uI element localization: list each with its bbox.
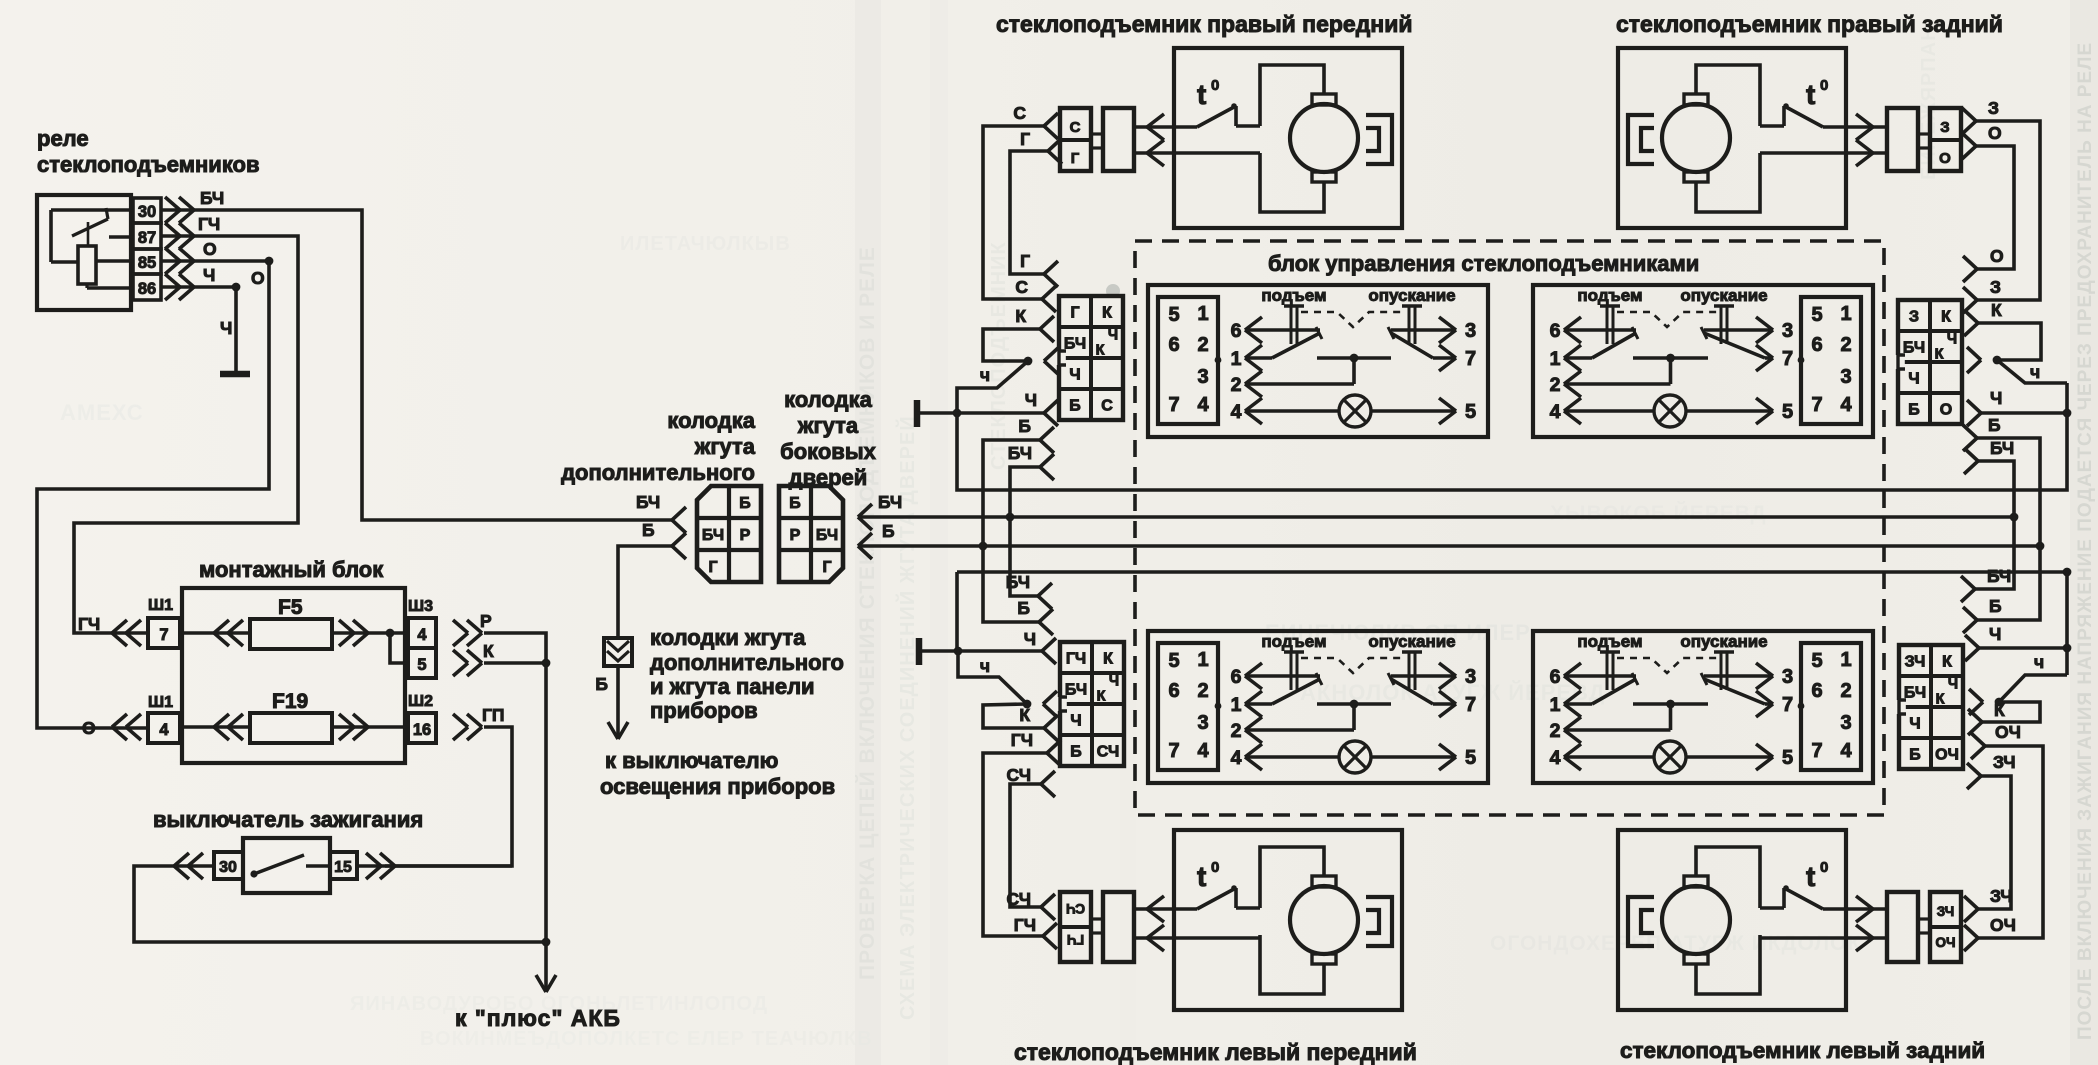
svg-text:колодки жгута: колодки жгута [650, 625, 806, 650]
svg-text:2: 2 [1840, 680, 1851, 702]
chevrons »» after F5 [339, 620, 368, 646]
svg-text:Ч: Ч [1948, 677, 1958, 693]
fork СЧ at M3 [1007, 889, 1056, 920]
wire F19→Ш2 [332, 725, 408, 729]
wire Ч into X1 [957, 390, 1058, 426]
svg-text:СЧ: СЧ [1066, 901, 1085, 916]
svg-text:4: 4 [1550, 747, 1561, 769]
fork БЧ into X1 [1008, 443, 1054, 480]
connector Ш2 label [408, 693, 433, 710]
svg-text:опускание: опускание [1680, 632, 1767, 651]
wire О label (pin85) [203, 239, 217, 259]
svg-text:Б: Б [1070, 744, 1082, 761]
svg-text:3: 3 [1197, 712, 1208, 734]
svg-text:6: 6 [1811, 334, 1822, 356]
svg-text:Г: Г [1020, 129, 1030, 149]
svg-text:ЗЧ: ЗЧ [1905, 654, 1926, 671]
ground G1 [220, 371, 250, 378]
wire О label at Ш1-4 [82, 718, 96, 738]
svg-text:ОЧ: ОЧ [1990, 915, 2016, 935]
wire Ч label (pin86) [203, 265, 215, 285]
control block dashed border [1135, 241, 1884, 815]
fork К into X4 [1968, 700, 2005, 735]
svg-text:жгута: жгута [797, 413, 859, 438]
title «колодка жгута боковых дверей» [780, 387, 876, 490]
колодка жгута дополнительного (block 1) [697, 486, 761, 582]
wire БЧ X4→bus [1975, 517, 2014, 589]
node Ч junction upper [953, 409, 962, 418]
svg-text:5: 5 [417, 656, 426, 674]
svg-text:ГЧ: ГЧ [1014, 915, 1036, 935]
svg-text:ч: ч [2030, 362, 2040, 382]
svg-text:БЧ: БЧ [1064, 336, 1086, 353]
svg-text:Б: Б [642, 520, 655, 540]
fork З into X2 [1963, 277, 2001, 313]
ignition pin 30 box [214, 852, 243, 879]
fork ЗЧ into X4 [1967, 752, 2016, 789]
relay pin 87 connector chevrons [165, 223, 194, 249]
svg-text:Б: Б [1017, 598, 1030, 618]
svg-text:Ч: Ч [203, 265, 215, 285]
wire ч diagonal X3 [958, 651, 1031, 708]
connector blocks at M4 [1887, 892, 1961, 962]
svg-text:СЧ: СЧ [1097, 744, 1119, 761]
svg-text:Ч: Ч [1908, 371, 1919, 388]
wire З M2→control connector [1976, 121, 2040, 300]
node Ч junction lower [954, 647, 963, 656]
label «к "плюс" АКБ» [455, 1005, 621, 1031]
svg-text:С: С [1013, 103, 1026, 123]
svg-text:О: О [251, 268, 265, 288]
svg-text:З: З [1940, 119, 1949, 136]
svg-text:блок управления стеклоподъемни: блок управления стеклоподъемниками [1268, 251, 1699, 276]
svg-text:монтажный блок: монтажный блок [199, 557, 384, 582]
fork СЧ into X3 [1007, 765, 1056, 797]
svg-text:Б: Б [789, 495, 801, 512]
wire Б X4→bus [1977, 546, 2040, 620]
fork К into X1 [1015, 306, 1054, 342]
svg-text:ч: ч [980, 365, 990, 385]
switch unit 4 (левый задний) [1533, 631, 1873, 783]
svg-text:Ч: Ч [1109, 674, 1119, 690]
svg-text:3: 3 [1465, 320, 1476, 342]
svg-text:t: t [1197, 79, 1206, 110]
svg-text:и жгута панели: и жгута панели [650, 674, 815, 699]
svg-text:30: 30 [219, 859, 237, 876]
svg-text:ПРОВЕРКА ЦЕПЕЙ ВКЛЮЧЕНИЯ СТЕКЛ: ПРОВЕРКА ЦЕПЕЙ ВКЛЮЧЕНИЯ СТЕКЛОПОДЪЕМНИК… [855, 246, 879, 980]
svg-text:t: t [1197, 861, 1206, 892]
svg-text:Ч: Ч [1989, 624, 2001, 644]
arrows into M4 [1856, 896, 1873, 951]
relay pin 85 connector chevrons [165, 248, 194, 274]
svg-text:ГЧ: ГЧ [78, 614, 100, 634]
svg-text:Г: Г [708, 559, 717, 576]
svg-text:ГЧ: ГЧ [1066, 651, 1086, 668]
svg-text:ОЧ: ОЧ [1936, 935, 1956, 950]
arrows into M2 [1856, 114, 1873, 166]
chevrons »» after F19 [339, 714, 368, 740]
svg-text:2: 2 [1550, 720, 1561, 742]
svg-text:F19: F19 [272, 690, 308, 713]
svg-text:Ч: Ч [1025, 390, 1037, 410]
svg-text:7: 7 [1811, 740, 1822, 762]
svg-text:6: 6 [1550, 320, 1561, 342]
connector Ш1 label (row1) [148, 597, 173, 614]
wire Ч X2→bus node [1981, 409, 2071, 418]
wire ignition to +АКБ bus [134, 866, 550, 946]
svg-text:Б: Б [1069, 398, 1081, 415]
svg-text:ч: ч [2034, 652, 2044, 672]
svg-text:4: 4 [159, 721, 169, 739]
svg-text:подъем: подъем [1577, 286, 1642, 305]
svg-text:БЧ: БЧ [1065, 682, 1087, 699]
wire БЧ X1→bus [1010, 467, 1040, 517]
svg-text:30: 30 [138, 203, 156, 221]
wire ГЧ label [198, 214, 220, 234]
svg-text:1: 1 [1840, 649, 1851, 671]
svg-text:З: З [1988, 98, 1999, 118]
svg-text:ХЫВОКОБ ЙЕРЕВД: ХЫВОКОБ ЙЕРЕВД [1550, 501, 1767, 525]
wire С M1→control connector [983, 126, 1044, 299]
svg-text:5: 5 [1168, 650, 1179, 672]
wire ГЧ relay→монтажный блок Ш1-7 [74, 236, 298, 634]
svg-text:4: 4 [1197, 394, 1209, 416]
svg-text:1: 1 [1840, 303, 1851, 325]
svg-text:БЧ: БЧ [1008, 443, 1032, 463]
fuse F19 [250, 690, 332, 743]
svg-text:5: 5 [1811, 304, 1822, 326]
svg-text:3: 3 [1465, 666, 1476, 688]
fork С into X1 [1015, 277, 1056, 312]
chevrons »» after ignition [366, 853, 395, 879]
wire О into fuse F19 [182, 725, 250, 729]
svg-text:5: 5 [1782, 401, 1793, 423]
svg-text:К: К [1935, 347, 1944, 363]
fork О at M2 [1962, 123, 2002, 159]
svg-text:Б: Б [1018, 416, 1031, 436]
label «к выключателю освещения приборов» [600, 748, 835, 799]
svg-text:О: О [1939, 150, 1951, 167]
svg-text:Г: Г [1020, 251, 1030, 271]
arrows into M3 [1147, 896, 1164, 951]
svg-text:БЧ: БЧ [816, 527, 838, 544]
connector X2 (правый задний) block [1895, 300, 1962, 424]
svg-text:3: 3 [1782, 666, 1793, 688]
svg-text:к выключателю: к выключателю [605, 748, 778, 773]
svg-text:0: 0 [1211, 77, 1219, 94]
wire Р label [480, 611, 492, 631]
svg-text:С: С [1070, 119, 1081, 136]
wire ч diagonal X2 [1997, 360, 2067, 383]
wire Ч label [220, 318, 232, 338]
wire К label [483, 641, 494, 661]
wire Б X3→bus [983, 546, 1039, 622]
switch unit 3 (левый передний) [1148, 631, 1488, 783]
svg-text:15: 15 [334, 859, 352, 876]
motor M3 левый передний [1174, 830, 1402, 1010]
svg-text:колодка: колодка [667, 408, 755, 433]
svg-text:Р: Р [790, 527, 801, 544]
svg-text:СЧ: СЧ [1007, 889, 1032, 909]
svg-text:3: 3 [1782, 320, 1793, 342]
wire ГЧ into fuse F5 [182, 631, 250, 635]
arrows into M1 [1147, 114, 1164, 166]
svg-text:6: 6 [1168, 680, 1179, 702]
motor M2 правый задний [1618, 48, 1846, 228]
svg-text:К: К [1102, 305, 1112, 322]
wire К jumper X4 [1982, 702, 2040, 722]
svg-text:ОЧ: ОЧ [1995, 722, 2021, 742]
connector blocks at M3 [1060, 892, 1134, 962]
connector Ш1 pin 4 box [148, 713, 180, 743]
svg-text:О: О [82, 718, 96, 738]
chevrons »» after Ш2-16 [453, 714, 482, 740]
fork Б into X1 [1018, 416, 1054, 453]
svg-text:опускание: опускание [1680, 286, 1767, 305]
wire СЧ X3→M3 [1010, 784, 1041, 907]
svg-text:Ш2: Ш2 [408, 693, 433, 710]
svg-text:выключатель зажигания: выключатель зажигания [153, 807, 423, 832]
connector X3 (левый передний) block [1057, 642, 1124, 766]
bus Ч lower (left end) [955, 572, 959, 651]
svg-text:жгута: жгута [694, 434, 756, 459]
wire О M2→control connector [1976, 146, 2014, 269]
svg-text:4: 4 [1840, 394, 1852, 416]
монтажный блок body [182, 588, 405, 763]
svg-text:С: С [1015, 277, 1028, 297]
svg-text:К: К [483, 641, 494, 661]
svg-text:4: 4 [1231, 401, 1242, 423]
connector blocks at M1 [1060, 108, 1134, 171]
svg-text:СТЕКЛОПОДЪЕМНИК: СТЕКЛОПОДЪЕМНИК [988, 241, 1010, 470]
svg-text:стеклоподъемник правый задний: стеклоподъемник правый задний [1616, 11, 2003, 37]
svg-text:6: 6 [1168, 334, 1179, 356]
svg-text:опускание: опускание [1368, 632, 1455, 651]
wire ГП label [482, 705, 505, 725]
svg-text:4: 4 [1231, 747, 1242, 769]
svg-text:О: О [1940, 402, 1952, 419]
svg-text:4: 4 [1197, 740, 1209, 762]
svg-text:7: 7 [1782, 694, 1793, 716]
fork Б into X4 [1963, 596, 2002, 633]
wire Г M1→control connector [1010, 151, 1048, 274]
svg-text:1: 1 [1550, 348, 1561, 370]
svg-text:БЧ: БЧ [1990, 438, 2014, 458]
svg-text:ПОСЛЕ ВКЛЮЧЕНИЯ ЗАЖИГАНИЯ НАПР: ПОСЛЕ ВКЛЮЧЕНИЯ ЗАЖИГАНИЯ НАПРЯЖЕНИЕ ПОД… [2075, 42, 2096, 1040]
svg-text:К: К [1991, 300, 2002, 320]
svg-text:ГП: ГП [482, 705, 505, 725]
fork row2 into X1 [1044, 348, 1058, 374]
svg-text:К: К [1015, 306, 1026, 326]
wire К [484, 659, 550, 942]
fork О into X2 [1963, 246, 2004, 282]
chevrons «« before ignition [174, 853, 203, 879]
chevrons «« before F19 [214, 714, 243, 740]
fork Ч into X2 [1967, 388, 2002, 426]
wire ч diagonal X4 [1995, 652, 2067, 706]
svg-text:СЧ: СЧ [1007, 765, 1032, 785]
svg-text:БЧ: БЧ [702, 527, 724, 544]
svg-text:7: 7 [1465, 348, 1476, 370]
title «колодка жгута дополнительного» [561, 408, 756, 485]
bus Ч upper (to right side) [957, 383, 2067, 490]
svg-text:опускание: опускание [1368, 286, 1455, 305]
svg-text:З: З [1990, 277, 2001, 297]
bus БЧ labels [878, 492, 902, 541]
svg-text:2: 2 [1840, 334, 1851, 356]
title «блок управления стеклоподъемниками» [1268, 251, 1699, 276]
motor M4 левый задний [1618, 830, 1846, 1010]
svg-text:ч: ч [980, 656, 990, 676]
connector blocks at M2 [1887, 108, 1961, 171]
wire К jumper X1 [983, 329, 1040, 365]
svg-text:6: 6 [1231, 320, 1242, 342]
fork К into X3 [1019, 705, 1058, 741]
svg-text:Б: Б [739, 495, 751, 512]
колодки жгута symbol (double chevron box) [604, 638, 632, 666]
svg-text:К: К [1097, 689, 1106, 705]
relay pin 30 connector chevrons [165, 197, 194, 223]
fork БЧ into X3 [1006, 572, 1052, 609]
svg-text:Ш3: Ш3 [408, 598, 433, 615]
svg-text:К: К [1941, 309, 1951, 326]
chevrons «« before Ш1-4 [112, 714, 141, 740]
svg-text:подъем: подъем [1261, 632, 1326, 651]
bus Б (white) [858, 542, 2044, 551]
svg-text:16: 16 [413, 721, 431, 739]
svg-text:к "плюс" АКБ: к "плюс" АКБ [455, 1005, 621, 1031]
relay K1 body [37, 195, 131, 310]
svg-text:колодка: колодка [784, 387, 872, 412]
arrow to +12V battery [536, 942, 556, 992]
svg-text:F5: F5 [278, 596, 303, 619]
wire БЧ/Б labels at колодка 1 [636, 492, 660, 540]
колодка жгута боковых дверей (block 2) [779, 486, 843, 582]
svg-text:6: 6 [1231, 666, 1242, 688]
wire ОЧ X4→M4 [1978, 746, 2043, 938]
fork Б into X3 [1017, 598, 1053, 635]
chevrons «« before Ш1-7 [112, 620, 141, 646]
svg-text:ЗЧ: ЗЧ [1937, 904, 1954, 919]
wire Б X2→bus [1977, 438, 2040, 546]
node О junction label [251, 268, 265, 288]
svg-text:К: К [1096, 343, 1105, 359]
svg-text:Б: Б [1908, 402, 1920, 419]
wires M1 to connector [1134, 127, 1260, 153]
wires M2 to connector [1760, 127, 1887, 153]
svg-text:7: 7 [1168, 394, 1179, 416]
svg-text:Б: Б [1909, 747, 1921, 764]
wire Р [484, 633, 546, 664]
relay title «реле стеклоподъемников» [37, 126, 260, 177]
svg-text:Г: Г [1070, 305, 1079, 322]
svg-text:К: К [1942, 654, 1952, 671]
wires M4 to connector [1760, 909, 1887, 938]
svg-text:5: 5 [1811, 650, 1822, 672]
wire БЧ label [200, 188, 224, 208]
svg-text:7: 7 [1465, 694, 1476, 716]
svg-text:Г: Г [1071, 150, 1080, 167]
svg-text:приборов: приборов [650, 698, 758, 723]
svg-text:Ч: Ч [1108, 328, 1118, 344]
svg-text:1: 1 [1197, 649, 1208, 671]
svg-text:4: 4 [1550, 401, 1561, 423]
fork ОЧ at M4 [1964, 915, 2016, 951]
fork ГЧ into X3 [1011, 730, 1061, 766]
svg-text:0: 0 [1211, 859, 1219, 876]
svg-text:ГЧ: ГЧ [1067, 932, 1084, 947]
connector Ш1 label (row2) [148, 694, 173, 711]
svg-text:Ш1: Ш1 [148, 597, 173, 614]
svg-text:87: 87 [138, 229, 156, 247]
svg-text:С: С [1101, 398, 1113, 415]
svg-text:t: t [1806, 861, 1815, 892]
svg-text:ОГОНДОХЕРЕП АТУГЖ ИКДОЛОК: ОГОНДОХЕРЕП АТУГЖ ИКДОЛОК [1490, 932, 1861, 955]
connector X1 (правый передний) block [1056, 296, 1123, 420]
svg-text:Б: Б [1989, 596, 2002, 616]
svg-text:3: 3 [1840, 366, 1851, 388]
svg-text:БЧ: БЧ [1904, 685, 1926, 702]
wire БЧ X3→bus [1010, 517, 1038, 596]
svg-text:Р: Р [480, 611, 492, 631]
fork БЧ into X2 [1964, 438, 2014, 474]
svg-text:1: 1 [1231, 348, 1242, 370]
wire К jumper X2 [1978, 323, 2041, 364]
connector Ш3 pin 5 box [408, 648, 436, 678]
wire К jumper X3 [983, 704, 1044, 728]
svg-text:О: О [203, 239, 217, 259]
svg-text:О: О [1990, 246, 2004, 266]
title «стеклоподъемник правый передний» [996, 11, 1412, 37]
title «выключатель зажигания» [153, 807, 423, 832]
fork Г at M1 [1020, 129, 1062, 164]
fork Ч into X4 [1965, 624, 2001, 661]
svg-text:Р: Р [740, 527, 751, 544]
fork Г into X1 [1020, 251, 1058, 287]
wire ч diagonal X1 [957, 361, 1028, 413]
ground tap bar Ч (upper) [917, 400, 957, 427]
svg-text:Б: Б [595, 674, 608, 694]
svg-text:К: К [1936, 692, 1945, 708]
svg-text:2: 2 [1550, 374, 1561, 396]
svg-text:О: О [1988, 123, 2002, 143]
svg-text:К: К [1019, 705, 1030, 725]
svg-text:0: 0 [1820, 77, 1828, 94]
svg-text:1: 1 [1231, 694, 1242, 716]
svg-text:5: 5 [1465, 747, 1476, 769]
svg-text:К: К [1103, 651, 1113, 668]
label Б at колодки [595, 674, 608, 694]
svg-text:6: 6 [1811, 680, 1822, 702]
fork row2 into X3 [1043, 691, 1057, 717]
svg-text:4: 4 [1840, 740, 1852, 762]
connector Ш2 pin 16 box [408, 713, 436, 743]
svg-text:ГЧ: ГЧ [198, 214, 220, 234]
svg-text:Ч: Ч [1070, 713, 1081, 730]
wire Ч X4→bus [1979, 572, 2071, 675]
svg-text:подъем: подъем [1261, 286, 1326, 305]
svg-text:АМЕХС: АМЕХС [60, 400, 144, 425]
svg-text:7: 7 [1782, 348, 1793, 370]
svg-text:Ш1: Ш1 [148, 694, 173, 711]
svg-text:3: 3 [1197, 366, 1208, 388]
svg-text:86: 86 [138, 280, 156, 298]
relay pin 86 connector chevrons [165, 274, 194, 300]
svg-text:Ч: Ч [220, 318, 232, 338]
node БЧ/Б forks into колодка 2 [858, 504, 872, 559]
fork ЗЧ at M4 [1964, 886, 2013, 922]
ignition pin 15 box [330, 852, 357, 879]
